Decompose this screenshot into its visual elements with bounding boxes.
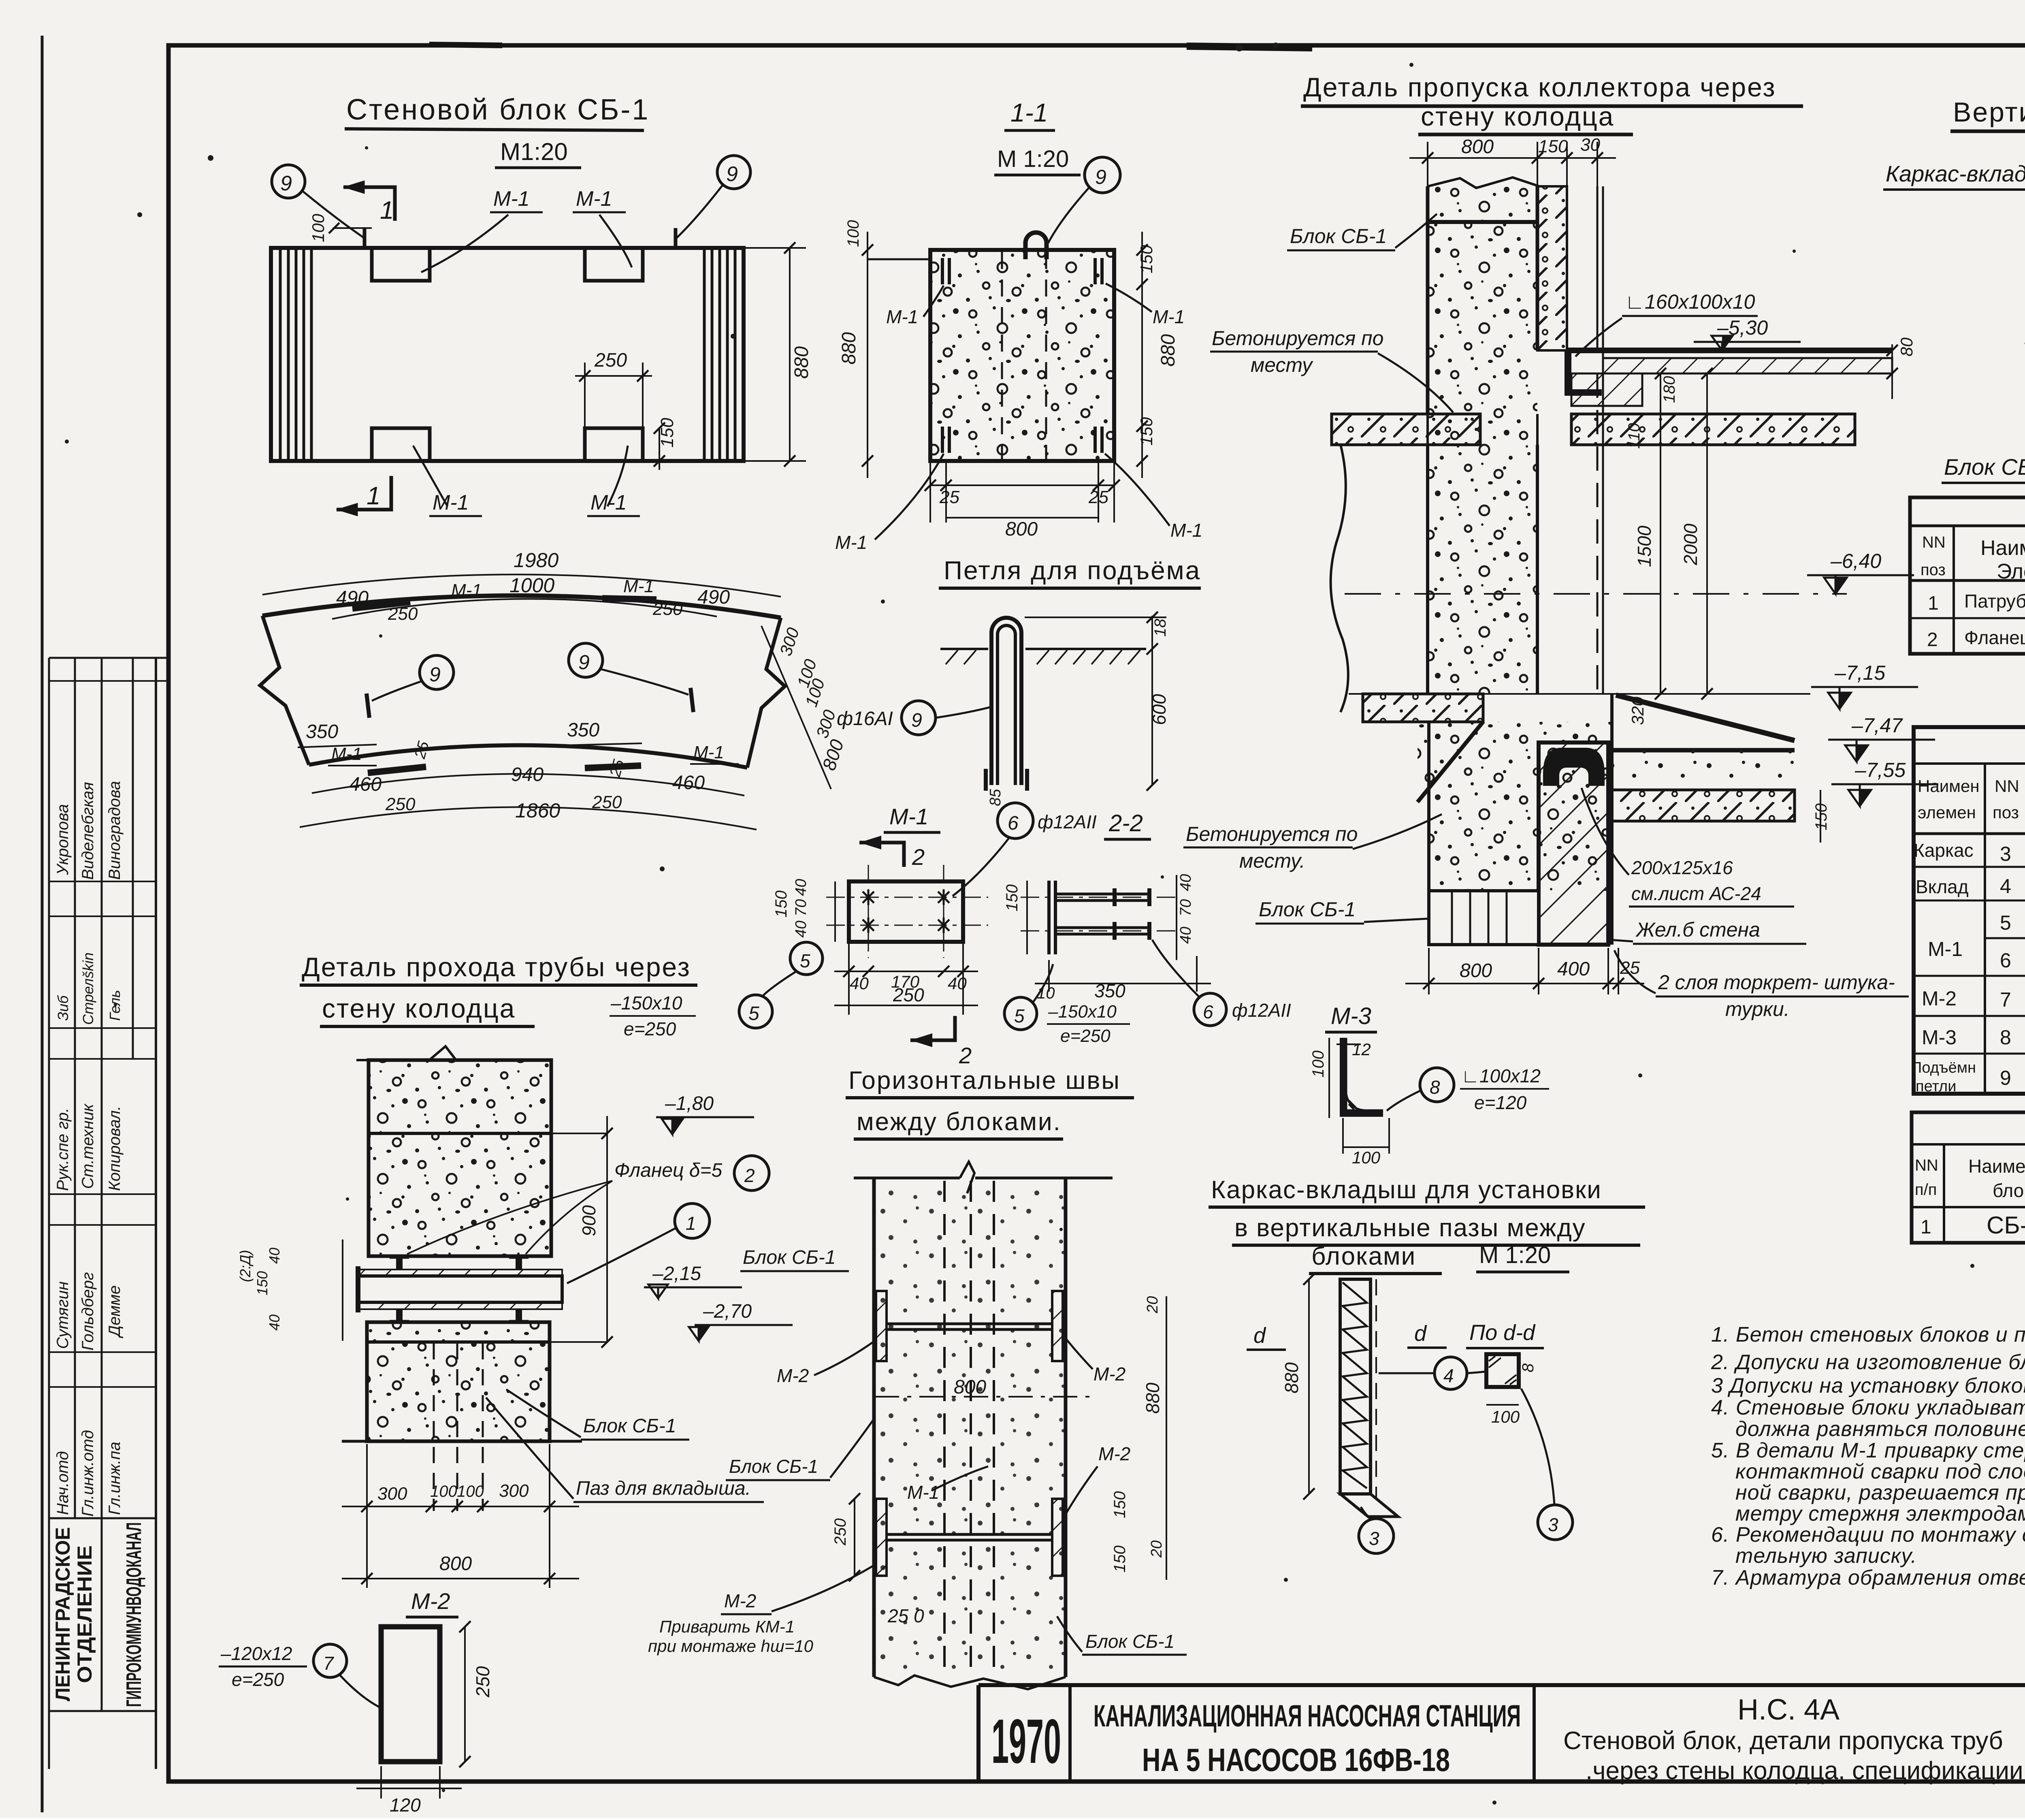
bar <box>1340 1279 1371 1494</box>
svg-text:Каркас-вкладыш для установки: Каркас-вкладыш для установки <box>1211 1176 1602 1204</box>
section 2 top <box>859 843 904 867</box>
svg-text:Зиб: Зиб <box>55 995 71 1021</box>
big lower concrete <box>1417 722 1612 945</box>
bolts <box>396 1256 522 1323</box>
outer arc <box>262 595 781 618</box>
svg-text:9: 9 <box>2000 1067 2011 1089</box>
svg-text:М-1: М-1 <box>451 580 482 600</box>
svg-text:800: 800 <box>1005 518 1038 540</box>
svg-text:250: 250 <box>893 984 924 1005</box>
svg-text:месту.: месту. <box>1239 849 1305 872</box>
svg-text:Элемента: Элемента <box>1997 560 2025 583</box>
loop bar <box>991 618 1021 785</box>
svg-text:25: 25 <box>939 487 959 507</box>
svg-text:2. Допуски на изготовление б: 2. Допуски на изготовление блоков 0-1см.… <box>1711 1351 2025 1374</box>
svg-text:Патрубок стальной: Патрубок стальной <box>1964 591 2025 612</box>
svg-text:880: 880 <box>1142 1383 1163 1414</box>
svg-text:Вклад: Вклад <box>1916 876 1969 897</box>
svg-text:1: 1 <box>367 482 380 510</box>
ground line with hatch <box>940 648 988 650</box>
svg-text:9: 9 <box>578 651 590 674</box>
horizontal seams drawing <box>648 1067 1187 1689</box>
right diagonal dim chain <box>761 626 831 789</box>
svg-text:1000: 1000 <box>509 574 554 597</box>
svg-text:М-2: М-2 <box>1922 987 1957 1010</box>
rods <box>1055 894 1149 934</box>
lower left block with grooves <box>1429 891 1539 945</box>
svg-text:100: 100 <box>430 1483 457 1500</box>
svg-text:250: 250 <box>831 1518 849 1546</box>
svg-text:–2,15: –2,15 <box>652 1263 701 1284</box>
svg-text:350: 350 <box>306 721 338 743</box>
svg-text:М-1: М-1 <box>1928 938 1963 960</box>
svg-text:250: 250 <box>652 599 683 619</box>
svg-text:Н.С. 4А: Н.С. 4А <box>1737 1694 1840 1726</box>
centerlines <box>826 865 988 958</box>
right dims <box>1141 232 1143 478</box>
svg-text:Нач.отд: Нач.отд <box>54 1451 72 1515</box>
svg-text:800: 800 <box>954 1376 986 1398</box>
svg-text:тельную записку.: тельную записку. <box>1735 1544 1917 1568</box>
svg-text:490: 490 <box>697 587 730 608</box>
svg-text:2: 2 <box>959 1043 972 1068</box>
svg-text:3 Допуски на установку бл: 3 Допуски на установку блоков ± 2см. <box>1711 1374 2025 1398</box>
svg-text:М-1: М-1 <box>1153 306 1185 327</box>
svg-text:100: 100 <box>1352 1148 1381 1167</box>
svg-text:3: 3 <box>2000 843 2011 865</box>
svg-text:см.лист АС-24: см.лист АС-24 <box>1631 883 1761 904</box>
svg-text:Наимен: Наимен <box>1918 777 1980 796</box>
plate <box>849 881 963 942</box>
svg-text:110: 110 <box>1625 423 1643 449</box>
notches <box>372 248 430 281</box>
left void break line <box>1331 445 1348 712</box>
svg-text:40: 40 <box>948 974 967 993</box>
svg-text:40: 40 <box>1177 874 1194 891</box>
left dim 880 <box>867 232 868 478</box>
svg-text:180: 180 <box>1660 376 1678 403</box>
svg-text:Жел.б стена: Жел.б стена <box>1635 918 1760 941</box>
svg-text:d: d <box>1414 1321 1427 1346</box>
svg-text:940: 940 <box>511 764 544 785</box>
svg-text:350: 350 <box>567 719 599 741</box>
svg-text:7. Арматура обрамления отв: 7. Арматура обрамления отверстий учтена … <box>1711 1566 2025 1590</box>
inner arc <box>309 745 747 768</box>
svg-text:1: 1 <box>380 196 394 224</box>
lifting loop detail <box>837 556 1201 806</box>
left break jag <box>260 616 309 765</box>
svg-text:250: 250 <box>388 604 418 624</box>
svg-text:70: 70 <box>793 899 810 916</box>
900 dim <box>606 1116 608 1342</box>
plate edge <box>1047 881 1051 954</box>
svg-text:Виделебгкая: Виделебгкая <box>79 782 97 880</box>
-7.47 slab <box>1612 748 1795 753</box>
svg-text:п/п: п/п <box>1915 1181 1937 1199</box>
svg-text:150: 150 <box>1538 137 1568 156</box>
svg-text:85: 85 <box>987 789 1004 806</box>
svg-text:8: 8 <box>1519 1363 1537 1372</box>
svg-text:Каркас: Каркас <box>1914 840 1974 861</box>
L angle <box>1565 350 1571 396</box>
svg-text:80: 80 <box>1897 337 1916 356</box>
svg-text:2: 2 <box>1927 629 1938 651</box>
svg-text:25 0: 25 0 <box>887 1605 924 1626</box>
svg-text:–150x10: –150x10 <box>610 992 682 1013</box>
bottom dims <box>1428 948 1430 994</box>
svg-text:150: 150 <box>1111 1545 1129 1572</box>
svg-text:150: 150 <box>254 1271 271 1295</box>
svg-text:∟100x12: ∟100x12 <box>1461 1065 1541 1086</box>
svg-text:Приварить КМ-1: Приварить КМ-1 <box>659 1617 795 1636</box>
svg-text:стену колодца: стену колодца <box>322 993 516 1023</box>
svg-text:1: 1 <box>686 1213 696 1234</box>
svg-text:600: 600 <box>1149 694 1170 725</box>
top edge smear <box>1187 46 1312 48</box>
svg-text:2: 2 <box>912 844 925 870</box>
svg-text:1-1: 1-1 <box>1010 98 1048 127</box>
svg-text:ф12АII: ф12АII <box>1038 811 1097 832</box>
top-left drawing: wall block plan <box>271 94 812 516</box>
top line <box>868 258 930 260</box>
svg-text:8: 8 <box>2000 1026 2011 1049</box>
svg-text:460: 460 <box>672 772 705 794</box>
lower section <box>1349 693 1810 695</box>
svg-text:Блок СБ-1: Блок СБ-1 <box>1290 225 1387 248</box>
880 dim <box>1308 1279 1310 1494</box>
svg-text:100: 100 <box>457 1483 484 1500</box>
svg-text:∟160x100x10: ∟160x100x10 <box>1625 290 1755 313</box>
ramp to -7.47 <box>1616 695 1795 740</box>
svg-text:9: 9 <box>911 710 922 731</box>
svg-text:e=120: e=120 <box>1474 1092 1527 1113</box>
svg-text:Копировал.: Копировал. <box>106 1106 124 1191</box>
svg-text:9: 9 <box>1095 166 1106 188</box>
svg-text:–7,55: –7,55 <box>1854 759 1906 781</box>
svg-text:Деталь прохода трубы через: Деталь прохода трубы через <box>302 952 691 982</box>
svg-text:30: 30 <box>1580 135 1600 155</box>
floor slab crossing <box>1332 414 1480 445</box>
pipe through wall detail <box>237 1046 849 1588</box>
svg-text:5: 5 <box>1014 1005 1025 1026</box>
svg-text:880: 880 <box>1281 1362 1302 1393</box>
svg-text:Гл.инж.па: Гл.инж.па <box>106 1442 124 1515</box>
svg-text:Подъёмн: Подъёмн <box>1911 1059 1976 1076</box>
svg-text:100: 100 <box>309 213 328 242</box>
svg-text:ОТДЕЛЕНИЕ: ОТДЕЛЕНИЕ <box>73 1545 96 1683</box>
svg-text:Ст.техник: Ст.техник <box>79 1103 97 1189</box>
svg-text:40: 40 <box>793 879 810 896</box>
svg-text:5: 5 <box>748 1003 759 1024</box>
svg-text:150: 150 <box>1812 803 1830 830</box>
svg-text:–1,80: –1,80 <box>665 1093 714 1114</box>
svg-text:М-1: М-1 <box>576 187 612 211</box>
section 1-1 <box>835 98 1202 553</box>
svg-text:150: 150 <box>1137 245 1156 273</box>
svg-text:8: 8 <box>1430 1077 1440 1098</box>
svg-text:М-3: М-3 <box>1922 1026 1957 1049</box>
svg-text:200x125x16: 200x125x16 <box>1631 857 1733 878</box>
svg-text:NN: NN <box>1915 1156 1938 1174</box>
svg-text:150: 150 <box>1003 884 1021 911</box>
svg-text:2000: 2000 <box>1680 523 1701 565</box>
curved plan <box>260 549 848 1039</box>
svg-text:блоками: блоками <box>1311 1242 1416 1270</box>
svg-text:М-1: М-1 <box>623 576 654 596</box>
svg-text:4: 4 <box>2000 875 2011 898</box>
svg-text:Сутягин: Сутягин <box>54 1281 72 1349</box>
svg-text:между блоками.: между блоками. <box>857 1108 1062 1136</box>
wall column <box>874 1178 1066 1677</box>
dims below <box>848 942 850 1015</box>
left dims <box>854 1499 855 1576</box>
circles 3 <box>1359 1519 1394 1553</box>
section mark 1 top <box>337 181 395 516</box>
svg-text:(2:Д): (2:Д) <box>237 1250 254 1282</box>
svg-text:М-1: М-1 <box>433 491 469 514</box>
weld marks <box>863 890 949 933</box>
svg-text:40: 40 <box>266 1248 283 1264</box>
svg-text:120: 120 <box>390 1794 421 1816</box>
svg-text:1500: 1500 <box>1634 525 1655 567</box>
svg-text:250: 250 <box>472 1666 493 1698</box>
svg-text:100: 100 <box>844 220 862 247</box>
svg-text:Каркас-вкладыш: Каркас-вкладыш <box>1886 161 2025 186</box>
svg-text:800: 800 <box>1460 960 1492 981</box>
dims <box>1176 875 1177 960</box>
M-1 plate detail <box>761 803 1097 1068</box>
svg-text:Блок СБ-1: Блок СБ-1 <box>1085 1631 1174 1652</box>
svg-text:4: 4 <box>1443 1365 1454 1386</box>
svg-text:Наименование: Наименование <box>1980 536 2025 560</box>
svg-text:М-1: М-1 <box>907 1482 939 1503</box>
table: specification armatury <box>1914 727 2025 1094</box>
svg-text:6. Рекомендации по монтажу: 6. Рекомендации по монтажу стакана из сб… <box>1711 1523 2025 1547</box>
svg-text:Рук.спе гр.: Рук.спе гр. <box>54 1108 72 1191</box>
bottom dims <box>930 484 1114 486</box>
svg-text:320: 320 <box>1628 696 1647 725</box>
svg-text:800: 800 <box>439 1553 472 1575</box>
svg-text:9: 9 <box>726 162 738 186</box>
right dims <box>1166 1296 1167 1580</box>
svg-text:при монтаже hш=10: при монтаже hш=10 <box>648 1637 814 1656</box>
svg-text:ф12АII: ф12АII <box>1232 1000 1291 1021</box>
svg-text:М-2: М-2 <box>724 1590 756 1611</box>
svg-text:800: 800 <box>1461 136 1494 158</box>
svg-text:М-1: М-1 <box>886 306 918 327</box>
svg-text:2-2: 2-2 <box>1108 810 1143 836</box>
svg-text:6: 6 <box>1008 813 1019 834</box>
block outline <box>271 248 744 461</box>
svg-text:Деталь пропуска коллектора: Деталь пропуска коллектора через <box>1303 72 1776 102</box>
hatched column right of block <box>1537 186 1567 350</box>
svg-text:М1:20: М1:20 <box>500 138 568 165</box>
svg-text:e=250: e=250 <box>1060 1026 1111 1046</box>
svg-text:Гольдберг: Гольдберг <box>79 1272 97 1351</box>
joint 1 <box>876 1291 1063 1361</box>
svg-text:ф16АI: ф16АI <box>837 708 893 730</box>
svg-text:2: 2 <box>744 1165 755 1186</box>
lifting loop top <box>1025 233 1047 259</box>
thin gap lines <box>1597 186 1599 350</box>
svg-text:40: 40 <box>1177 927 1194 944</box>
svg-text:ной сварки, разрешается прив: ной сварки, разрешается приварка дуговой… <box>1735 1481 2025 1504</box>
svg-text:Демме: Демме <box>106 1285 124 1338</box>
svg-text:9: 9 <box>280 172 292 195</box>
svg-text:СБ-1: СБ-1 <box>1987 1212 2025 1239</box>
svg-text:Блок СБ-1: Блок СБ-1 <box>743 1247 836 1268</box>
svg-text:300: 300 <box>499 1481 529 1501</box>
svg-text:Виноградова: Виноградова <box>106 781 124 880</box>
top dims <box>1409 157 1616 159</box>
svg-text:–150x10: –150x10 <box>1048 1002 1117 1022</box>
svg-text:1980: 1980 <box>514 549 558 572</box>
left stamp strip <box>49 658 168 1769</box>
lower block <box>367 1322 550 1441</box>
svg-text:поз: поз <box>1921 561 1946 579</box>
svg-text:40: 40 <box>850 974 869 993</box>
left dims <box>834 881 836 942</box>
svg-text:NN: NN <box>1922 533 1946 551</box>
karkas-vkladysh detail <box>1209 1176 1645 1553</box>
left small dims <box>342 1240 343 1341</box>
svg-text:месту: месту <box>1251 354 1313 376</box>
svg-text:70: 70 <box>1177 899 1194 916</box>
svg-text:20: 20 <box>1144 1296 1161 1314</box>
svg-text:900: 900 <box>578 1205 599 1236</box>
svg-text:Паз для вкладыша.: Паз для вкладыша. <box>576 1478 751 1499</box>
svg-text:Блок СБ-1: Блок СБ-1 <box>729 1456 818 1477</box>
svg-text:М-1: М-1 <box>835 532 867 553</box>
svg-text:Бетонируется по: Бетонируется по <box>1186 823 1358 845</box>
svg-text:1: 1 <box>1928 593 1939 614</box>
80 dim right of slab <box>1891 344 1893 399</box>
svg-text:М-2: М-2 <box>411 1588 450 1614</box>
table: specification wall blocks <box>1912 1112 2025 1243</box>
dims 1500 / 2000 <box>1660 373 1661 694</box>
svg-text:–7,47: –7,47 <box>1851 714 1903 737</box>
svg-text:150: 150 <box>772 890 790 917</box>
svg-text:1: 1 <box>1921 1216 1931 1238</box>
svg-text:–2,70: –2,70 <box>703 1301 752 1322</box>
svg-text:460: 460 <box>349 774 382 795</box>
svg-text:880: 880 <box>838 332 860 365</box>
svg-text:40: 40 <box>793 921 810 938</box>
svg-text:должна равняться половине д: должна равняться половине длины стеновых… <box>1735 1417 2025 1441</box>
svg-text:стену колодца: стену колодца <box>1421 101 1614 131</box>
svg-text:НА 5 НАСОСОВ 16ФВ-18: НА 5 НАСОСОВ 16ФВ-18 <box>1142 1742 1450 1778</box>
svg-text:e=250: e=250 <box>232 1669 284 1690</box>
central pier hatched <box>1539 743 1608 945</box>
svg-text:400: 400 <box>1557 958 1590 980</box>
svg-text:М-1: М-1 <box>693 743 724 762</box>
svg-text:25: 25 <box>1088 487 1108 507</box>
svg-text:ГИПРОКОММУНВОДОКАНАЛ: ГИПРОКОММУНВОДОКАНАЛ <box>122 1522 146 1707</box>
svg-text:18: 18 <box>1151 619 1169 637</box>
section 1-1 <box>0 0 0 0</box>
svg-text:Стеновой блок, детали пропу: Стеновой блок, детали пропуска труб <box>1563 1727 2003 1755</box>
svg-text:блока: блока <box>1993 1180 2025 1201</box>
svg-text:М-1: М-1 <box>1170 520 1202 541</box>
slab right <box>1567 348 1892 353</box>
M-1 plate bars on arcs <box>352 602 410 608</box>
svg-text:Петля для подъёма: Петля для подъёма <box>944 556 1201 585</box>
svg-text:Укропова: Укропова <box>54 804 72 875</box>
svg-text:12: 12 <box>1352 1040 1371 1059</box>
svg-text:Горизонтальные швы: Горизонтальные швы <box>848 1067 1121 1095</box>
svg-text:М-1: М-1 <box>889 804 928 829</box>
svg-text:КАНАЛИЗАЦИОННАЯ НАСОСНАЯ СТА: КАНАЛИЗАЦИОННАЯ НАСОСНАЯ СТАНЦИЯ <box>1093 1699 1521 1733</box>
svg-text:.через стены колодца, специф: .через стены колодца, спецификации. <box>1586 1757 2025 1785</box>
svg-text:М-3: М-3 <box>1331 1003 1371 1029</box>
svg-text:150: 150 <box>1137 417 1156 446</box>
svg-text:150: 150 <box>1111 1491 1129 1518</box>
svg-text:в вертикальные пазы между: в вертикальные пазы между <box>1234 1214 1586 1242</box>
svg-text:150: 150 <box>657 418 677 448</box>
svg-text:100: 100 <box>1309 1050 1327 1077</box>
svg-text:25: 25 <box>1620 958 1640 978</box>
svg-text:20: 20 <box>1148 1540 1165 1558</box>
svg-text:NN: NN <box>1995 777 2019 796</box>
table: specification metalla <box>1910 497 2025 654</box>
svg-text:490: 490 <box>336 587 369 609</box>
M-2 plate detail <box>219 1588 493 1816</box>
title block <box>978 1685 2025 1782</box>
M-3 angle detail <box>1309 1003 1549 1167</box>
central collector detail <box>1183 72 1938 1020</box>
svg-text:Бетонируется по: Бетонируется по <box>1212 327 1383 350</box>
svg-text:Наименован: Наименован <box>1968 1156 2025 1177</box>
svg-text:5. В детали М-1 приварку с: 5. В детали М-1 приварку стержней поз. 6… <box>1711 1439 2025 1462</box>
svg-text:М-2: М-2 <box>777 1365 809 1386</box>
svg-text:1970: 1970 <box>991 1706 1061 1776</box>
svg-text:350: 350 <box>1094 980 1125 1001</box>
corner rebar marks <box>942 258 1102 453</box>
upper wall: left concrete column <box>1428 186 1537 414</box>
dim arcs above <box>262 574 781 597</box>
specification tables <box>1910 497 2025 1243</box>
svg-text:М 1:20: М 1:20 <box>997 146 1069 172</box>
joint 2 <box>876 1499 1063 1576</box>
svg-text:Блок СБ-1: Блок СБ-1 <box>583 1415 676 1437</box>
svg-text:100: 100 <box>1491 1407 1520 1426</box>
svg-text:М-2: М-2 <box>1093 1363 1125 1385</box>
right break jag <box>747 618 785 768</box>
svg-text:d: d <box>1253 1323 1266 1348</box>
notes <box>1711 1294 2025 1590</box>
level line at -6.40 <box>1345 593 1847 595</box>
svg-text:М-1: М-1 <box>493 187 530 211</box>
upper wall blocks <box>369 1060 551 1256</box>
svg-text:Фланец δ=5: Фланец δ=5 <box>614 1160 722 1181</box>
svg-text:2 слоя торкрет- штука-: 2 слоя торкрет- штука- <box>1658 971 1895 994</box>
left paper edge line <box>41 36 44 1812</box>
svg-text:880: 880 <box>1157 334 1179 367</box>
svg-text:Вертикальные пазы между бло: Вертикальные пазы между блоками <box>1953 97 2025 128</box>
svg-text:–120x12: –120x12 <box>220 1643 292 1664</box>
svg-text:М 1:20: М 1:20 <box>1479 1242 1551 1268</box>
svg-text:5: 5 <box>800 950 810 971</box>
svg-text:6: 6 <box>2000 949 2011 972</box>
bottom dims <box>366 1444 368 1588</box>
vertical grooves drawing <box>1883 97 2025 483</box>
svg-text:7: 7 <box>2000 988 2011 1011</box>
svg-text:5: 5 <box>2000 911 2011 934</box>
svg-text:300: 300 <box>377 1484 407 1504</box>
svg-text:ЛЕНИНГРАДСКОЕ: ЛЕНИНГРАДСКОЕ <box>51 1527 74 1701</box>
section 2 bottom <box>910 1016 955 1040</box>
svg-text:3: 3 <box>1548 1514 1558 1535</box>
